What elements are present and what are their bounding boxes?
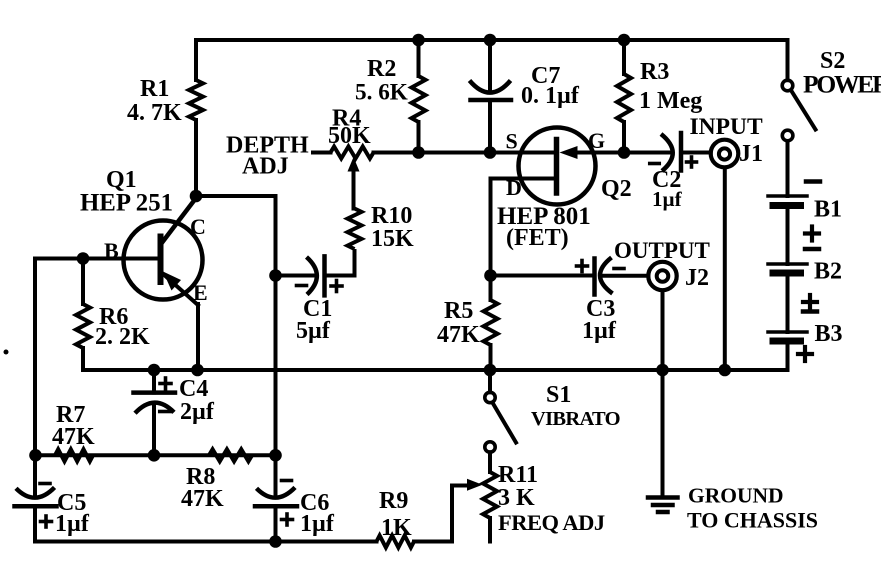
node C7 top junction <box>484 34 497 47</box>
capacitor C5 bottom lead <box>33 506 37 541</box>
battery B2 plus <box>803 295 817 309</box>
wire R3 bottom lead <box>622 122 626 153</box>
wire J2 down <box>661 291 665 371</box>
label C3 value <box>582 318 617 344</box>
wire signal rail <box>419 151 555 155</box>
capacitor C7 plate <box>471 98 512 103</box>
label C7 value <box>521 83 580 109</box>
label R11 <box>498 462 538 488</box>
capacitor C6 bottom lead <box>274 506 278 541</box>
transistor Q1 circle <box>124 221 203 300</box>
capacitor C6 polarity plus <box>282 514 293 525</box>
svg-text:2. 2K: 2. 2K <box>95 324 150 350</box>
svg-text:47K: 47K <box>52 424 95 450</box>
resistor R8 <box>209 449 252 461</box>
battery B2 minus <box>805 247 819 252</box>
capacitor C7 curved plate <box>470 81 511 93</box>
capacitor C5 curved plate <box>16 487 55 497</box>
label R3 <box>640 59 669 85</box>
label Q2 <box>601 176 632 202</box>
label INPUT <box>690 114 763 140</box>
label C1 <box>303 296 332 322</box>
node C6 top junction <box>269 449 282 462</box>
wire left vertical <box>33 259 37 496</box>
capacitor C1 polarity plus <box>331 281 342 292</box>
label Q1 <box>106 167 137 193</box>
label R11 name <box>498 510 605 535</box>
node base junction <box>77 252 90 265</box>
transistor Q1 bar <box>158 237 164 283</box>
svg-text:1K: 1K <box>381 515 412 541</box>
svg-text:FREQ ADJ: FREQ ADJ <box>498 510 605 535</box>
svg-text:5µf: 5µf <box>296 318 331 344</box>
svg-text:R3: R3 <box>640 59 669 85</box>
wire B2 to B3 <box>786 277 790 333</box>
svg-text:2µf: 2µf <box>180 399 215 425</box>
wire drain vertical <box>489 179 493 276</box>
resistor R2 <box>412 76 426 122</box>
node R5 bottom junction <box>484 364 497 377</box>
capacitor C6 plate <box>255 504 297 509</box>
wire riser up <box>450 486 454 542</box>
capacitor C2 curved plate <box>661 134 673 171</box>
battery B2 <box>768 264 807 273</box>
capacitor C4 plate <box>134 390 176 395</box>
wire R10 to C1 <box>325 249 355 276</box>
wire gate lead <box>574 151 671 155</box>
transistor Q2 bar <box>554 140 560 194</box>
capacitor C7 bottom lead <box>488 100 492 153</box>
capacitor C6 polarity minus <box>282 479 292 483</box>
resistor R6 bottom lead <box>81 348 85 370</box>
label C7 <box>531 63 560 89</box>
wire R5 bottom lead <box>489 345 493 370</box>
label R7 <box>56 402 85 428</box>
label TO CHASSIS <box>687 508 818 533</box>
ground symbol <box>648 498 678 513</box>
label C1 value <box>296 318 331 344</box>
label POWER <box>803 70 881 99</box>
wire C1 column vertical <box>274 196 278 455</box>
wire B1 to B2 <box>786 209 790 264</box>
node C4 top junction <box>148 364 161 377</box>
svg-text:B1: B1 <box>814 197 842 223</box>
wire wiper down <box>352 168 356 209</box>
svg-text:3 K: 3 K <box>498 485 535 511</box>
capacitor C4 polarity plus <box>160 378 171 389</box>
label R1 <box>140 76 169 102</box>
switch S2 bottom contact <box>782 130 793 141</box>
wire R4 to R2 node <box>374 151 419 155</box>
switch S1 bottom contact <box>485 442 495 452</box>
label C6 <box>300 490 329 516</box>
switch S1 top contact <box>485 392 495 402</box>
label C6 value <box>300 511 335 537</box>
wire S2 to B1 <box>786 141 790 196</box>
wire depth rail left <box>313 151 331 155</box>
resistor R10 <box>348 209 362 250</box>
switch S1 lever <box>493 404 516 443</box>
battery B1 minus <box>806 179 820 184</box>
svg-text:4. 7K: 4. 7K <box>127 100 182 126</box>
label R10 <box>371 203 412 229</box>
svg-text:50K: 50K <box>328 123 371 149</box>
wire top supply rail <box>196 38 788 42</box>
capacitor C4 bottom lead <box>152 403 156 455</box>
svg-text:1 Meg: 1 Meg <box>639 88 702 114</box>
svg-text:B2: B2 <box>814 259 842 285</box>
svg-text:0. 1µf: 0. 1µf <box>521 83 580 109</box>
stray dot <box>4 350 9 355</box>
svg-text:ADJ: ADJ <box>242 154 289 180</box>
node collector junction <box>190 190 203 203</box>
wire R5 top lead <box>489 276 493 301</box>
wire R3 top lead <box>622 40 626 74</box>
capacitor C3 curved plate <box>600 258 613 294</box>
node R2 bottom junction <box>412 146 425 159</box>
label OUTPUT <box>614 238 710 263</box>
node R3 bottom junction <box>618 146 631 159</box>
wire drain lead <box>491 177 557 181</box>
label R5 value <box>437 322 480 348</box>
node C6 bottom junction <box>269 535 282 548</box>
resistor R11 <box>483 472 497 518</box>
arrow R4 wiper <box>348 157 360 172</box>
label ADJ <box>242 154 289 180</box>
label C4 value <box>180 399 215 425</box>
label S terminal <box>506 129 518 154</box>
svg-text:INPUT: INPUT <box>690 114 763 140</box>
switch S2 lever <box>792 91 816 130</box>
wire C3 to J2 <box>601 274 648 278</box>
node C7 bottom junction <box>484 146 497 159</box>
label B terminal <box>104 238 119 263</box>
node C5 top junction <box>29 449 42 462</box>
battery B3 minus <box>803 309 817 314</box>
wire C1 left lead <box>276 274 317 278</box>
label C terminal <box>190 214 206 239</box>
wire S1 to R11 <box>488 452 492 472</box>
label Q2 part <box>497 203 591 230</box>
node drain junction <box>484 269 497 282</box>
wire ground stem <box>661 370 665 498</box>
label D terminal <box>506 175 522 200</box>
label B1 <box>814 197 842 223</box>
label R8 value <box>181 486 224 512</box>
label C5 value <box>55 511 90 537</box>
resistor R6 <box>76 304 90 348</box>
transistor Q2 circle <box>519 128 596 205</box>
node emitter junction <box>191 364 204 377</box>
svg-text:HEP 251: HEP 251 <box>80 190 173 217</box>
capacitor C4 curved plate <box>135 403 174 414</box>
node ground stem junction <box>656 364 669 377</box>
capacitor C5 plate <box>15 504 57 509</box>
node R3 top junction <box>618 34 631 47</box>
resistor R1 <box>189 80 203 120</box>
wire R1 bottom lead <box>194 120 198 196</box>
label R3 value <box>639 88 702 114</box>
capacitor C5 polarity minus <box>40 482 50 486</box>
label R4 value <box>328 123 371 149</box>
svg-text:VIBRATO: VIBRATO <box>531 408 620 430</box>
svg-text:E: E <box>193 280 208 305</box>
capacitor C1 polarity minus <box>297 284 307 288</box>
svg-text:(FET): (FET) <box>506 225 569 251</box>
resistor R7 <box>55 449 93 461</box>
svg-text:B3: B3 <box>815 321 843 347</box>
wire top rail drop <box>786 40 790 80</box>
label R6 <box>99 304 128 330</box>
wire C3 left lead <box>491 274 595 278</box>
capacitor C6 curved plate <box>257 487 296 497</box>
capacitor C7 top lead <box>488 40 492 90</box>
label R8 <box>186 464 215 490</box>
jack J1 inner <box>719 148 730 159</box>
svg-text:OUTPUT: OUTPUT <box>614 238 710 263</box>
capacitor C3 polarity plus <box>577 261 588 272</box>
label J1 <box>739 141 763 167</box>
jack J2 outer <box>648 262 676 290</box>
label R9 <box>379 488 408 514</box>
node J1 return junction <box>719 364 732 377</box>
resistor R11 bottom lead <box>488 518 492 542</box>
svg-text:47K: 47K <box>437 322 480 348</box>
arrow R11 wiper <box>467 479 483 491</box>
label C3 <box>586 296 615 322</box>
resistor R5 <box>484 300 498 345</box>
label B3 <box>815 321 843 347</box>
wire R9 to riser <box>414 540 452 544</box>
wire R2 top lead <box>417 40 421 76</box>
svg-text:POWER: POWER <box>803 70 881 99</box>
wire ground rail <box>83 368 788 372</box>
resistor R9 <box>377 536 415 548</box>
resistor R6 top lead <box>81 259 85 305</box>
node R2 top junction <box>412 34 425 47</box>
label B2 <box>814 259 842 285</box>
label R11 value <box>498 485 535 511</box>
label C2 value <box>652 187 683 211</box>
wire base <box>35 257 158 261</box>
capacitor C2 polarity plus <box>687 157 697 167</box>
label S1 name <box>531 408 620 430</box>
svg-text:1µf: 1µf <box>652 187 683 211</box>
capacitor C6 top lead <box>274 455 278 495</box>
svg-text:C: C <box>190 214 206 239</box>
wire R1 top lead <box>194 40 198 80</box>
wire emitter vertical <box>196 304 200 370</box>
svg-text:15K: 15K <box>371 226 414 252</box>
wire J1 down <box>723 168 727 371</box>
label R6 value <box>95 324 150 350</box>
svg-text:1µf: 1µf <box>55 511 90 537</box>
wire bottom rail <box>35 540 377 544</box>
svg-text:R9: R9 <box>379 488 408 514</box>
capacitor C4 polarity minus <box>160 410 171 414</box>
battery B1 plus <box>805 227 819 241</box>
wire R7 R8 rail <box>35 453 276 457</box>
label R2 <box>367 56 396 82</box>
svg-text:R1: R1 <box>140 76 169 102</box>
capacitor C2 plate <box>679 133 684 171</box>
switch S2 top contact <box>782 80 793 91</box>
capacitor C1 plate <box>322 256 327 295</box>
transistor Q1 collector lead <box>161 198 196 244</box>
svg-text:1µf: 1µf <box>300 511 335 537</box>
label DEPTH <box>226 133 309 159</box>
label C5 <box>57 490 86 516</box>
svg-text:Q2: Q2 <box>601 176 632 202</box>
capacitor C1 curved plate <box>307 257 317 295</box>
svg-text:R2: R2 <box>367 56 396 82</box>
label R5 <box>444 298 473 324</box>
label R9 value <box>381 515 412 541</box>
svg-text:J2: J2 <box>685 265 709 291</box>
resistor R3 <box>617 74 631 122</box>
svg-text:5. 6K: 5. 6K <box>355 80 408 106</box>
label Q1 part <box>80 190 173 217</box>
capacitor C3 polarity minus <box>614 267 624 271</box>
transistor Q1 emitter lead <box>162 273 198 305</box>
label E terminal <box>193 280 208 305</box>
label S2 <box>820 48 845 74</box>
transistor Q2 gate arrow <box>560 146 578 159</box>
label Q2 type <box>506 225 569 251</box>
wire R5 S1 stub <box>488 370 492 392</box>
label S1 <box>546 382 571 408</box>
svg-text:S: S <box>506 129 518 154</box>
label R7 value <box>52 424 95 450</box>
label R1 value <box>127 100 182 126</box>
svg-text:1µf: 1µf <box>582 318 617 344</box>
svg-text:GROUND: GROUND <box>688 484 784 508</box>
battery B3 plus <box>798 347 812 361</box>
wire collector to C1 column <box>196 194 276 198</box>
label R2 value <box>355 80 408 106</box>
label J2 <box>685 265 709 291</box>
label G terminal <box>588 128 605 153</box>
resistor R4 <box>331 147 374 159</box>
wire R2 bottom lead <box>417 122 421 153</box>
capacitor C5 polarity plus <box>41 516 52 527</box>
node C4 bottom junction <box>148 449 161 462</box>
node C1 left junction <box>269 269 282 282</box>
label GROUND <box>688 484 784 508</box>
battery B3 <box>768 332 807 341</box>
svg-text:TO CHASSIS: TO CHASSIS <box>687 508 818 533</box>
svg-text:R5: R5 <box>444 298 473 324</box>
jack J2 inner <box>657 270 669 282</box>
label C4 <box>179 376 208 402</box>
svg-text:47K: 47K <box>181 486 224 512</box>
battery B1 <box>768 196 807 206</box>
capacitor C4 top lead <box>152 370 156 393</box>
svg-text:J1: J1 <box>739 141 763 167</box>
label R10 value <box>371 226 414 252</box>
wire C2 to J1 <box>681 151 711 155</box>
svg-text:S1: S1 <box>546 382 571 408</box>
capacitor C2 polarity minus <box>650 162 660 166</box>
wire wiper feed <box>452 484 468 488</box>
jack J1 outer <box>711 140 739 168</box>
label R4 <box>332 106 361 132</box>
label C2 <box>652 167 681 193</box>
svg-text:G: G <box>588 128 605 153</box>
wire B3 to rail <box>786 345 790 371</box>
capacitor C3 plate <box>592 259 597 295</box>
transistor Q1 emitter arrow <box>163 272 181 291</box>
